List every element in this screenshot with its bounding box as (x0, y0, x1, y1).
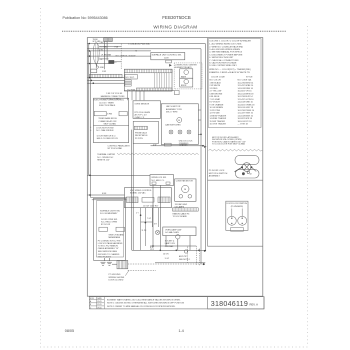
svg-text:12 TN TAN: 12 TN TAN (210, 112, 220, 115)
svg-text:GROUND TO CHASSIS: GROUND TO CHASSIS (98, 253, 120, 256)
svg-text:N.O. HELD CL.: N.O. HELD CL. (152, 180, 165, 182)
svg-text:LOW VOLTAGE HARNESS: LOW VOLTAGE HARNESS (98, 242, 123, 245)
electronic oven control board (124, 69, 172, 91)
sensor harness wires (131, 130, 133, 251)
svg-text:SELF CLEAN: SELF CLEAN (104, 122, 117, 125)
svg-text:M: M (178, 120, 180, 122)
svg-text:16-1822 W/R 18: 16-1822 W/R 18 (238, 118, 253, 120)
svg-text:HELD CLOSED BY DR.: HELD CLOSED BY DR. (97, 138, 119, 140)
svg-text:PROBE JACK: PROBE JACK (135, 132, 148, 135)
svg-text:14 W/BK TRACER: 14 W/BK TRACER (210, 117, 227, 120)
junction dot (160, 250, 162, 252)
door lock cam lower (235, 169, 259, 178)
EOC bottom header (136, 88, 172, 91)
power cord grommet (93, 43, 99, 64)
lamp caption (165, 241, 176, 248)
svg-text:12-1437 TN/R 16: 12-1437 TN/R 16 (238, 113, 254, 115)
svg-text:16-1822 Y/R 16: 16-1822 Y/R 16 (238, 91, 253, 93)
caption under motor (175, 203, 188, 208)
svg-text:N.C. CAM DRIVEN: N.C. CAM DRIVEN (96, 129, 114, 132)
svg-text:NOTE 1: UNLESS NOTED OTHERWISE: NOTE 1: UNLESS NOTED OTHERWISE ALL SWITC… (107, 302, 185, 305)
part number box (208, 297, 264, 309)
svg-text:14-1618 R/BK 16: 14-1618 R/BK 16 (238, 88, 254, 90)
svg-text:P&B: P&B (115, 46, 119, 48)
svg-text:SEE SERVICE DATA: SEE SERVICE DATA (98, 250, 118, 253)
terminal block labels (93, 39, 102, 43)
svg-text:TO EOC BOARD: TO EOC BOARD (173, 215, 188, 218)
latch motor M (177, 118, 182, 123)
note text block right column (212, 136, 246, 146)
element stub (175, 91, 180, 95)
svg-text:1 BK BLACK: 1 BK BLACK (210, 81, 222, 84)
svg-text:11 PK: 11 PK (142, 230, 148, 232)
svg-text:LF. FRONT: LF. FRONT (101, 55, 111, 57)
svg-text:NO. CODE GA.: NO. CODE GA. (238, 78, 252, 81)
broil relay K2 (180, 78, 193, 87)
svg-text:EOC RLY1: EOC RLY1 (126, 77, 135, 79)
svg-text:ELECTRONIC OVEN CONTROL: ELECTRONIC OVEN CONTROL (94, 99, 125, 101)
thermal switch caption (97, 153, 115, 161)
EOC dip rects (125, 80, 131, 82)
svg-text:GND: GND (100, 67, 105, 69)
svg-text:(PLUNGERS): (PLUNGERS) (231, 206, 244, 208)
svg-text:5. DISCONNECT POWER BEFORE: 5. DISCONNECT POWER BEFORE (209, 54, 243, 56)
svg-text:18-1014 BR/W 18: 18-1014 BR/W 18 (238, 93, 255, 95)
mid link wire (141, 221, 153, 223)
svg-text:SWITCH BOARD: SWITCH BOARD (109, 233, 125, 236)
dashed sense wire (120, 44, 122, 70)
harness wires to relay board (91, 197, 127, 199)
svg-text:8 V VIOLET: 8 V VIOLET (210, 102, 221, 104)
cord strain leads (95, 62, 98, 68)
svg-text:09-05: 09-05 (97, 307, 101, 309)
svg-text:6. SERVICING THIS UNIT: 6. SERVICING THIS UNIT (209, 57, 234, 59)
svg-text:10-1236 PK/BK 14: 10-1236 PK/BK 14 (238, 110, 255, 112)
panel divider vertical (207, 38, 209, 247)
drop wire from P2 (106, 42, 108, 61)
sensor connector (134, 126, 147, 129)
svg-text:MEMBRANE: MEMBRANE (109, 236, 121, 239)
svg-text:G-9 HALOGEN: G-9 HALOGEN (165, 231, 179, 234)
svg-text:3 R RED: 3 R RED (210, 88, 218, 90)
terminal block P1 (104, 38, 108, 42)
sensor lower box (133, 121, 158, 143)
svg-text:WIRING DIAGRAM: WIRING DIAGRAM (153, 25, 197, 30)
junction dot (203, 263, 205, 265)
svg-text:WIRE NO. — COLOR(1ST) + TRACER: WIRE NO. — COLOR(1ST) + TRACER(2ND) (209, 68, 251, 71)
wire N upper (88, 48, 202, 50)
svg-text:BROIL: BROIL (181, 85, 187, 87)
panel divider horizontal 2 (208, 245, 263, 247)
svg-text:J2 OUT 120V RLY: J2 OUT 120V RLY (143, 206, 159, 208)
svg-text:DOOR CLOSED: DOOR CLOSED (109, 279, 124, 281)
latch stub 2 (198, 119, 201, 121)
svg-text:10-1236 BK/W 14: 10-1236 BK/W 14 (238, 82, 255, 84)
thermal fuse symbol (184, 250, 187, 253)
svg-text:SURFACE LIGHT SW.: SURFACE LIGHT SW. (100, 209, 121, 212)
cam switch lamp 3 (187, 130, 191, 134)
lamp indicator (155, 230, 159, 234)
svg-text:THERMAL LIMITER: THERMAL LIMITER (97, 153, 115, 156)
header rule (62, 30, 286, 32)
panel divider horizontal 1 (208, 179, 263, 181)
svg-text:COLOR CODE: COLOR CODE (211, 77, 225, 79)
svg-text:FEB30T5DCB: FEB30T5DCB (162, 15, 191, 20)
svg-text:— GY/R 18: — GY/R 18 (238, 124, 249, 126)
svg-text:HARNESS CONNECTIONS: HARNESS CONNECTIONS (101, 95, 125, 98)
wire left bus 175 (88, 174, 151, 176)
bottom caption 1 (150, 247, 190, 261)
EOC bottom wire (124, 90, 174, 92)
svg-text:OVEN LAMP 40W: OVEN LAMP 40W (165, 228, 181, 231)
svg-text:TIMER BAKE BROIL: TIMER BAKE BROIL (98, 117, 118, 120)
pin strip right (158, 197, 170, 203)
svg-text:2 Y: 2 Y (136, 213, 139, 215)
svg-text:SYM: SYM (90, 298, 94, 300)
wire L1 (88, 43, 206, 45)
caption lower (109, 274, 125, 281)
svg-text:P9 DOOR LOCK: P9 DOOR LOCK (209, 170, 225, 172)
svg-text:AT 75°F ± 4.9: AT 75°F ± 4.9 (135, 113, 148, 116)
svg-text:14-1618 BK/R 16: 14-1618 BK/R 16 (238, 115, 254, 117)
notes strip frame (89, 297, 264, 309)
connector strip mid (173, 208, 199, 211)
convection motor box (175, 179, 196, 201)
junction dot (200, 134, 202, 136)
svg-text:SEE NOTE 1: SEE NOTE 1 (179, 259, 190, 261)
svg-text:9. USE COPPER WIRE ONLY: 9. USE COPPER WIRE ONLY (209, 65, 237, 67)
svg-text:4. SEE MINI MANUAL FOR SPECS: 4. SEE MINI MANUAL FOR SPECS (209, 51, 242, 54)
door lock cam upper (235, 155, 259, 164)
svg-text:N.O. MOMENTARY: N.O. MOMENTARY (100, 212, 118, 215)
vertical wires into lamp box (165, 236, 167, 246)
svg-text:CABLE ASSEMBLY 14": CABLE ASSEMBLY 14" (98, 247, 119, 250)
pin strip left (127, 197, 139, 203)
svg-text:NO. COLOR: NO. COLOR (210, 79, 222, 81)
svg-text:6 BL BLUE: 6 BL BLUE (210, 96, 220, 98)
bus wire 1 (88, 77, 125, 79)
latch stub 1 (198, 109, 201, 111)
svg-text:RT. REAR: RT. REAR (100, 46, 109, 49)
svg-text:5 BR BROWN: 5 BR BROWN (210, 93, 223, 95)
svg-text:05-05: 05-05 (97, 301, 101, 303)
svg-text:7 GY: 7 GY (147, 218, 152, 220)
svg-text:4 W: 4 W (153, 144, 157, 146)
terminal block P2 (108, 38, 112, 42)
L1 vertical wire (204, 44, 206, 251)
leader line (125, 270, 129, 275)
svg-text:42: 42 (250, 174, 252, 176)
inner cabinet box (96, 201, 123, 257)
sensor box (133, 101, 161, 119)
svg-text:9 OR ORANGE: 9 OR ORANGE (210, 103, 225, 106)
svg-text:5 BR: 5 BR (102, 71, 107, 73)
svg-text:ASSEMBLY: ASSEMBLY (209, 175, 221, 178)
svg-text:10-1236 BL/R 14: 10-1236 BL/R 14 (238, 96, 254, 98)
wire left bus 195 (88, 194, 125, 196)
svg-text:ASSEMBLY 120V: ASSEMBLY 120V (166, 108, 182, 111)
cut wavy line (209, 149, 263, 151)
junction dot (204, 250, 206, 252)
dashed harness wire 2 (128, 270, 156, 272)
power area labels (100, 42, 119, 73)
svg-text:10 OR: 10 OR (163, 253, 169, 255)
dashed harness wire 1 (128, 263, 204, 265)
relay board drops (141, 208, 159, 251)
svg-text:BOARD 120 VAC: BOARD 120 VAC (130, 192, 146, 195)
bottom wire 2 (150, 245, 196, 247)
wire broil (88, 55, 152, 57)
svg-text:ANTI-TIP: ANTI-TIP (179, 255, 188, 258)
cam switch lamp 2 (178, 130, 182, 134)
left rail wire A (88, 44, 90, 176)
interlock drop wires (152, 185, 154, 246)
svg-text:8. CAUTION HIGH VOLTAGE: 8. CAUTION HIGH VOLTAGE (209, 62, 237, 65)
svg-text:1. ALL WIRING RATED 105°C MIN.: 1. ALL WIRING RATED 105°C MIN. (209, 43, 242, 46)
svg-text:16 GY/R TRACER: 16 GY/R TRACER (210, 123, 227, 126)
svg-text:LAMP 120V: LAMP 120V (165, 242, 176, 245)
clock box caption (108, 144, 131, 150)
plug J1 (91, 69, 97, 73)
svg-text:08/05: 08/05 (65, 329, 74, 333)
plunger contact left (227, 216, 236, 225)
latch bottom connector (164, 143, 171, 146)
svg-text:ELEMENT RELAYS: ELEMENT RELAYS (175, 66, 192, 69)
svg-text:7. CHECK ALL CONNECTIONS: 7. CHECK ALL CONNECTIONS (209, 59, 239, 62)
bake broil relay box dashed (169, 63, 202, 89)
svg-text:11 PK PINK: 11 PK PINK (210, 110, 221, 112)
clock control box (90, 98, 129, 142)
bus wire 2 (88, 79, 125, 81)
oven lamp box (163, 227, 196, 239)
svg-text:INTERLOCK SW.: INTERLOCK SW. (152, 177, 167, 179)
svg-text:10 GN GREEN: 10 GN GREEN (210, 107, 224, 109)
svg-text:L2: L2 (115, 62, 117, 64)
svg-text:12-1437 GY/W 16: 12-1437 GY/W 16 (238, 99, 255, 101)
svg-text:NO.1 BROIL 3000W: NO.1 BROIL 3000W (116, 56, 137, 58)
svg-text:8 PIN: 8 PIN (107, 114, 112, 116)
cam switch lamp 1 (169, 130, 173, 134)
svg-text:3. ALL GROUND WIRES GREEN: 3. ALL GROUND WIRES GREEN (209, 48, 240, 51)
latch stub 3 (198, 133, 201, 135)
svg-text:REV. A: REV. A (250, 303, 259, 307)
svg-text:07-05: 07-05 (97, 304, 101, 306)
svg-text:6 BK: 6 BK (102, 193, 107, 195)
svg-text:1 BK: 1 BK (100, 42, 105, 44)
dashed drop 2 (199, 249, 201, 266)
power stub wires (99, 46, 121, 62)
wire latch to rail (151, 145, 204, 147)
door lock motor (235, 163, 257, 175)
svg-text:4: 4 (90, 127, 91, 129)
svg-text:16-1822 OR/BK 18: 16-1822 OR/BK 18 (238, 104, 256, 106)
svg-text:CHASSIS: CHASSIS (179, 144, 188, 147)
svg-text:W/ TOUCH PAD: W/ TOUCH PAD (108, 147, 123, 150)
oven light switch box (151, 53, 185, 63)
dashed drop 1 (195, 246, 197, 266)
harness labels mid (136, 213, 157, 233)
svg-text:Publication No: 5995443086: Publication No: 5995443086 (63, 16, 108, 20)
svg-text:12 R: 12 R (150, 249, 155, 251)
junction dot (176, 250, 178, 252)
svg-text:CLEAN DELAY OFF: CLEAN DELAY OFF (98, 120, 117, 123)
main frame (87, 38, 262, 297)
svg-text:FUNCTION PADS: FUNCTION PADS (99, 104, 116, 107)
svg-text:EXAMPLE: 1 BK/W = BLACK W/ WHI: EXAMPLE: 1 BK/W = BLACK W/ WHITE TR. (209, 71, 250, 74)
svg-text:18-1014 R/Y 18: 18-1014 R/Y 18 (238, 121, 253, 123)
svg-text:3 R: 3 R (100, 59, 103, 61)
page cut line bottom (40, 346, 308, 348)
svg-text:1 BK 2 W 3 R 4 BK: 1 BK 2 W 3 R 4 BK (106, 93, 123, 95)
bake relay K1 (180, 69, 193, 78)
svg-text:18-1014 GN/Y 18: 18-1014 GN/Y 18 (238, 107, 254, 109)
wire gnd to P7 (112, 263, 117, 265)
program box feed drops (128, 91, 145, 100)
svg-text:OVEN SENSOR: OVEN SENSOR (135, 103, 150, 105)
door switch box lower left (94, 198, 126, 260)
svg-text:RECEPTACLE: RECEPTACLE (135, 134, 148, 137)
svg-text:NOTE 2: REFER TO MINI MANUAL O: NOTE 2: REFER TO MINI MANUAL ON CONSOLE … (107, 305, 176, 308)
svg-text:3W 2.7 RPM: 3W 2.7 RPM (166, 111, 178, 113)
svg-text:BY DOOR: BY DOOR (101, 224, 111, 226)
door lock switch box (226, 201, 248, 231)
svg-text:7 GY GRAY: 7 GY GRAY (210, 98, 221, 101)
bottom bus wire (132, 249, 205, 251)
terminal box small P7 (117, 260, 128, 268)
fuse block dark (109, 60, 114, 63)
svg-text:OHMS / °F: OHMS / °F (135, 117, 145, 119)
svg-text:ELEMENT WATTS RATED 240 V. ALL: ELEMENT WATTS RATED 240 V. ALL RESISTANC… (107, 298, 181, 301)
svg-text:CONTROL PANEL ASSY: CONTROL PANEL ASSY (108, 144, 131, 147)
lock switch bottom connector (231, 228, 244, 232)
wire N (88, 50, 152, 52)
drop wire from P1 (104, 42, 106, 70)
page cut line left (40, 8, 42, 346)
svg-text:CONV FAN MOTOR: CONV FAN MOTOR (176, 180, 194, 183)
svg-text:SURFACE UNIT CONTROL SW.: SURFACE UNIT CONTROL SW. (152, 54, 182, 57)
svg-text:3 R: 3 R (154, 224, 157, 226)
svg-text:RESETS 110°: RESETS 110° (97, 159, 110, 161)
svg-text:4 Y YELLOW: 4 Y YELLOW (210, 91, 222, 93)
wire L2 (88, 63, 114, 65)
relay board box (125, 188, 172, 208)
main vertical wire right (200, 49, 202, 264)
svg-text:CAM SWITCHES: CAM SWITCHES (165, 123, 181, 126)
EOC internal drops (155, 73, 169, 88)
dashed drop 0 (186, 247, 188, 263)
text block below EOC (101, 93, 125, 100)
svg-text:2 W WHITE: 2 W WHITE (210, 85, 221, 87)
left rail wire B (90, 51, 92, 198)
svg-text:13 BK/W TRACER: 13 BK/W TRACER (210, 114, 227, 117)
svg-text:LATCH MOTOR: LATCH MOTOR (166, 105, 181, 108)
svg-text:318046119: 318046119 (211, 300, 248, 308)
page cut line right (307, 26, 309, 346)
EOC relay small box (125, 74, 137, 79)
bottom wire 3 (155, 262, 205, 264)
EOC pin strip top (124, 69, 172, 73)
svg-text:9 GY: 9 GY (165, 258, 170, 260)
svg-text:N: N (136, 50, 138, 52)
svg-text:MOTOR & SWITCH: MOTOR & SWITCH (209, 173, 228, 175)
svg-text:TO LOCK DOOR FOR SELF CLEAN: TO LOCK DOOR FOR SELF CLEAN (212, 143, 245, 146)
svg-text:6: 6 (90, 130, 91, 132)
svg-text:P12 PINS: P12 PINS (127, 89, 136, 91)
svg-text:14-1618 V/BK 16: 14-1618 V/BK 16 (238, 102, 254, 104)
bus wire 3 (88, 82, 125, 84)
svg-text:STYLE: STYLE (246, 77, 253, 79)
svg-text:P3 2 PIN: P3 2 PIN (135, 138, 143, 140)
caption under strip (173, 212, 190, 217)
latch motor box (161, 104, 198, 145)
interlock upper box (150, 175, 174, 186)
svg-text:COLORS: 1 COLOR / 2 COLOR W/TR: COLORS: 1 COLOR / 2 COLOR W/TRACER (209, 40, 251, 43)
plunger contact right (238, 216, 247, 225)
legend box (208, 39, 261, 128)
connector strip left (90, 74, 123, 78)
notes strip text (107, 298, 185, 307)
svg-text:120V: 120V (164, 57, 169, 59)
svg-text:2. WIRE NO. CODED AT EACH END: 2. WIRE NO. CODED AT EACH END (209, 45, 243, 48)
notes strip mini table (89, 297, 104, 309)
rail arrowhead (204, 146, 206, 148)
junction dot (205, 250, 207, 252)
door lock motor label (209, 170, 228, 177)
junction dot (198, 250, 200, 252)
svg-text:15 R/W TRACER: 15 R/W TRACER (210, 120, 226, 123)
svg-text:2 W: 2 W (100, 50, 103, 52)
svg-text:M: M (184, 189, 186, 191)
console boundary zigzag (117, 153, 199, 155)
svg-text:12-1437 W/BK 14: 12-1437 W/BK 14 (238, 85, 255, 87)
svg-text:1-4: 1-4 (179, 329, 184, 333)
chassis ground marks (101, 258, 112, 265)
svg-text:L1 (BLACK) P&B 40A: L1 (BLACK) P&B 40A (128, 42, 150, 45)
